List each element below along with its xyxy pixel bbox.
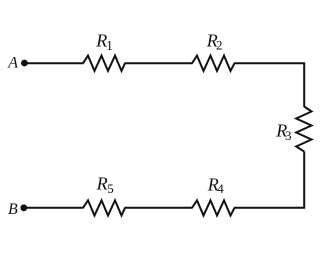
wire R4 to R5 [125, 207, 193, 209]
svg-text:2: 2 [216, 38, 223, 53]
wire R2 to top-right corner and down to R3 [234, 63, 304, 107]
svg-text:B: B [8, 201, 18, 218]
svg-text:1: 1 [106, 38, 113, 53]
svg-text:3: 3 [285, 128, 292, 143]
resistor R5 [83, 200, 125, 215]
svg-text:R: R [96, 174, 108, 194]
svg-text:A: A [7, 55, 18, 72]
svg-text:4: 4 [217, 181, 224, 196]
wire R1 to R2 [125, 62, 193, 64]
resistor R3 [296, 107, 311, 152]
resistor R2 [192, 56, 235, 71]
wire node A to R1 [25, 62, 84, 64]
resistor R1 [83, 56, 125, 71]
wire R3 to bottom-right corner and left to R4 [234, 152, 304, 208]
wire R5 to node B [25, 207, 84, 209]
node B terminal dot [20, 204, 27, 211]
node A terminal dot [21, 60, 28, 67]
resistor R4 [192, 200, 235, 215]
svg-text:5: 5 [107, 181, 114, 196]
